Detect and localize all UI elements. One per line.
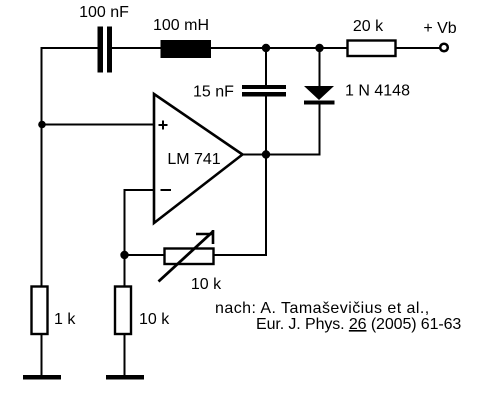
wire top-left horizontal to C1 [41, 47, 99, 49]
svg-text:20 k: 20 k [353, 18, 384, 35]
svg-text:nach: A. Tamaševičius et al.,: nach: A. Tamaševičius et al., [215, 300, 430, 317]
svg-text:10 k: 10 k [139, 311, 170, 328]
svg-text:1 N 4148: 1 N 4148 [345, 83, 410, 100]
pin - (inverting) [161, 189, 172, 191]
ground (right) [106, 375, 144, 380]
node junction top C2 branch [262, 44, 270, 52]
wire op-amp inverting input stub [125, 190, 155, 255]
inductor L1 100 mH [161, 40, 212, 58]
svg-text:LM 741: LM 741 [167, 151, 220, 168]
diode D1 1N4148 [304, 86, 335, 105]
svg-text:Eur. J. Phys. 26 (2005) 61-63: Eur. J. Phys. 26 (2005) 61-63 [256, 316, 461, 333]
wire top junction down to diode [319, 48, 321, 87]
node feedback junction [120, 251, 128, 259]
wire L1 to R1 across top junctions [211, 47, 347, 49]
resistor R2 1 k [32, 287, 48, 335]
capacitor C2 15 nF [242, 85, 286, 97]
wire feedback junction down to R2 [124, 255, 126, 287]
resistor R1 20 k [348, 41, 396, 57]
svg-text:100 mH: 100 mH [153, 17, 209, 34]
wire R2 to ground [41, 334, 43, 376]
reference citation text [215, 300, 461, 333]
wire top junction down to C2 [265, 48, 267, 86]
op-amp U1 LM 741 [154, 94, 243, 223]
wire diode branch to output junction [266, 154, 321, 156]
pin + (non-inverting) [159, 121, 168, 130]
wire to op-amp + input [42, 124, 155, 126]
wire R1 to +Vb terminal [396, 47, 440, 49]
svg-text:10 k: 10 k [191, 276, 222, 293]
wire left vertical rail [41, 47, 43, 287]
wire feedback junction to potentiometer [125, 254, 165, 256]
wire potentiometer to output junction [214, 155, 266, 256]
wire op-amp output to output junction [243, 154, 267, 156]
svg-text:15 nF: 15 nF [193, 84, 234, 101]
ground (left) [23, 375, 61, 380]
svg-text:100 nF: 100 nF [79, 4, 129, 21]
wire C2 down to output junction [265, 97, 267, 155]
potentiometer P1 10 k [159, 230, 215, 282]
svg-text:1 k: 1 k [54, 311, 76, 328]
terminal + Vb [440, 44, 448, 52]
resistor R3 10 k [115, 287, 131, 335]
svg-text:+ Vb: + Vb [423, 20, 456, 37]
node output junction [262, 150, 270, 158]
capacitor C1 100 nF [98, 27, 113, 73]
wire R3 to ground [124, 334, 126, 376]
node non-inverting input junction [38, 121, 46, 129]
node junction top diode branch [315, 44, 323, 52]
wire diode down to output line [319, 104, 321, 155]
wire C1 to L1 [112, 47, 161, 49]
